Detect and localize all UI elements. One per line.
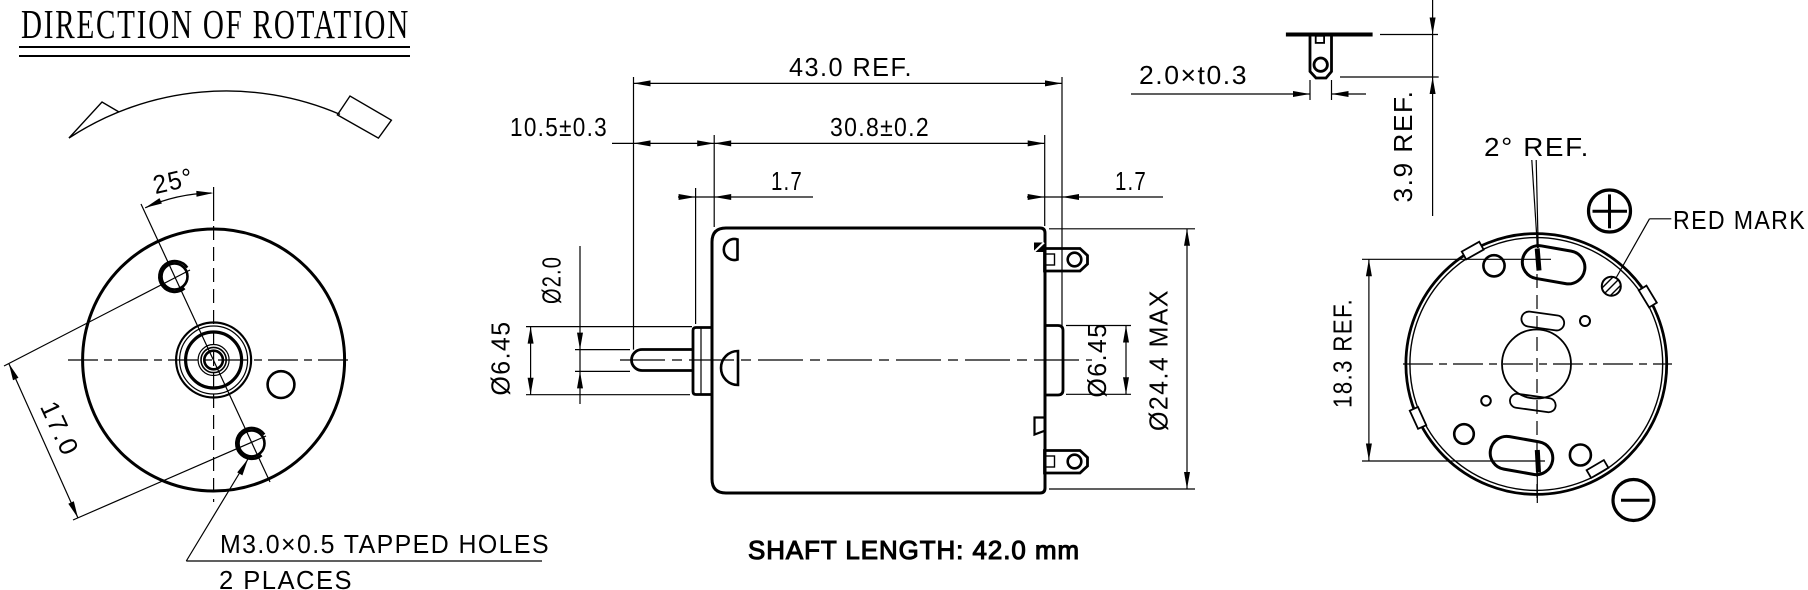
dim 2.0 ext lines [1309, 80, 1311, 100]
big slot bottom bar [1537, 450, 1538, 473]
svg-text:Ø24.4 MAX: Ø24.4 MAX [1144, 289, 1174, 431]
front view vertical solid ext (angular dim) [213, 187, 215, 221]
cap rim notch 1 [1462, 242, 1484, 260]
tapped hole bottom thread arc [236, 428, 264, 459]
cap hole small right [1580, 316, 1590, 326]
front view outer circle [83, 229, 345, 491]
terminal tab bottom [1045, 451, 1088, 474]
cap hole bottom-right [1570, 445, 1591, 466]
svg-text:43.0 REF.: 43.0 REF. [789, 52, 913, 82]
rotation arc arrowhead (open) [69, 102, 119, 138]
leader M3.0 shelf [186, 560, 542, 562]
cap rim notch 2 [1639, 286, 1657, 308]
red mark hatched circle [1598, 272, 1630, 312]
svg-text:1.7: 1.7 [771, 166, 803, 196]
tapped hole top thread arc [159, 261, 187, 292]
dim 17.0 arrow bottom [68, 501, 78, 518]
svg-text:M3.0×0.5 TAPPED HOLES: M3.0×0.5 TAPPED HOLES [220, 529, 550, 559]
big slot top [1520, 243, 1588, 286]
side view body [712, 228, 1045, 493]
hub circle thick mid [186, 332, 242, 388]
rotation arc [69, 91, 340, 138]
dim 1.7 left line [678, 196, 813, 198]
crimp bottom [1035, 418, 1045, 435]
ext line boss right [1061, 77, 1063, 326]
svg-text:RED MARK: RED MARK [1673, 205, 1806, 235]
cap vertical centerline solid bottom [1536, 472, 1538, 503]
collar inner line [700, 328, 702, 394]
front view small hole [268, 371, 295, 398]
svg-text:18.3 REF.: 18.3 REF. [1328, 298, 1358, 408]
dim 43.0 line [634, 82, 1063, 84]
dim 2.0xt0.3 line [1131, 93, 1310, 95]
cap view outer circle [1406, 234, 1667, 495]
side centerline [620, 359, 1092, 361]
svg-text:DIRECTION OF ROTATION: DIRECTION OF ROTATION [21, 1, 410, 47]
front view 25deg diagonal centerline [141, 204, 270, 482]
side view notch top [724, 239, 738, 260]
front view horizontal centerline [68, 359, 352, 361]
brush slot bottom [1509, 393, 1557, 413]
svg-text:1.7: 1.7 [1115, 166, 1147, 196]
shaft [632, 350, 694, 371]
svg-text:Ø6.45: Ø6.45 [1082, 323, 1112, 398]
dim 1.7 right line [1027, 196, 1163, 198]
dim dia6.45 left ext lines [526, 326, 692, 328]
detail cap line [1286, 33, 1373, 37]
front view vertical centerline [213, 226, 215, 502]
ext line shaft tip [633, 77, 635, 350]
crimp top [1034, 243, 1044, 253]
big slot bottom [1488, 434, 1556, 477]
cap horizontal centerline [1403, 363, 1672, 365]
dim 30.8 line [714, 142, 1044, 144]
dim 17.0 ext line bottom [73, 436, 266, 520]
dim dia6.45 right ext lines [1066, 325, 1131, 327]
cap rim notch 4 [1587, 460, 1609, 478]
terminal tab bottom hole [1068, 455, 1082, 469]
svg-text:30.8±0.2: 30.8±0.2 [830, 112, 930, 142]
cap hole top-left [1483, 255, 1504, 276]
svg-text:Ø2.0: Ø2.0 [537, 256, 567, 304]
dim 10.5 line [612, 142, 714, 144]
tapped hole top inner circle [162, 264, 188, 290]
cap vertical centerline [1536, 232, 1538, 503]
terminal tab top [1045, 249, 1088, 272]
dim dia24.4 line [1186, 229, 1188, 489]
rotation arc flag [337, 96, 391, 138]
cap rim notch 3 [1410, 407, 1426, 429]
dim 18.3 ext lines [1362, 258, 1551, 260]
hub circle shaft outer [201, 347, 226, 372]
title underline double [19, 46, 410, 48]
svg-text:10.5±0.3: 10.5±0.3 [510, 112, 608, 142]
minus terminal symbol [1613, 480, 1654, 521]
leader M3.0 arrow [237, 459, 248, 475]
dim 17.0 arrow top [9, 364, 19, 381]
dim 17.0 line [9, 364, 78, 519]
dim 25deg arc [145, 193, 211, 208]
detail tab hole [1314, 58, 1327, 71]
svg-text:3.9 REF.: 3.9 REF. [1388, 90, 1418, 203]
dim 18.3 line [1368, 259, 1370, 460]
big slot top bar [1537, 249, 1539, 271]
svg-text:2.0×t0.3: 2.0×t0.3 [1139, 60, 1248, 90]
ext line collar left [695, 188, 697, 324]
hub circle shaft bore [204, 351, 223, 370]
dim dia6.45 right line [1125, 326, 1127, 395]
hub circle outer thick [176, 323, 251, 398]
detail tab square [1316, 36, 1324, 43]
svg-text:Ø6.45: Ø6.45 [486, 321, 516, 396]
tapped hole bottom inner circle [239, 430, 265, 456]
leader 2deg lines [1532, 160, 1538, 248]
dim dia2.0 ext lines [575, 349, 630, 351]
hub circle thin [180, 326, 248, 394]
svg-text:2° REF.: 2° REF. [1484, 132, 1590, 162]
detail tab [1310, 35, 1332, 79]
ext line body left [713, 135, 715, 227]
ext line body right [1044, 135, 1046, 226]
cap hole bottom-left [1454, 424, 1474, 444]
svg-text:2 PLACES: 2 PLACES [219, 565, 353, 590]
terminal tab top square [1046, 254, 1055, 265]
collar [693, 328, 712, 395]
terminal tab bottom square [1046, 456, 1055, 467]
leader RED MARK [1650, 218, 1672, 220]
dim 25deg arrow left [145, 198, 162, 208]
brush slot top [1520, 311, 1565, 332]
terminal tab top hole [1068, 253, 1082, 267]
svg-text:SHAFT LENGTH: 42.0 mm: SHAFT LENGTH: 42.0 mm [748, 535, 1080, 565]
hub circle thin inner [198, 345, 229, 376]
side view notch mid [721, 351, 738, 385]
cap view inner rim circle [1410, 238, 1663, 491]
dim 3.9 ext lines [1380, 34, 1438, 36]
leader M3.0 line [186, 459, 248, 561]
dim dia6.45 left line [530, 327, 532, 395]
dim 3.9 vertical line [1432, 0, 1434, 216]
cap hole small left [1481, 396, 1491, 406]
dim 17.0 ext line top [4, 270, 190, 366]
plus terminal symbol [1589, 190, 1631, 232]
dim 25deg arrow right [196, 191, 213, 197]
dim dia2.0 vertical line [579, 246, 581, 404]
cap center hole [1502, 330, 1571, 399]
dim dia24.4 ext lines [1049, 228, 1195, 230]
rear boss [1045, 326, 1063, 396]
